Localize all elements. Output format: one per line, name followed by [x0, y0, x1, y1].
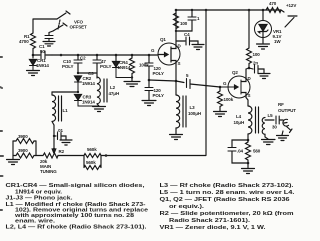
node spare rail junction [60, 54, 63, 57]
resistor 560 source [246, 140, 251, 163]
svg-text:R2: R2 [59, 149, 65, 154]
ground L2/CR3 [93, 107, 106, 112]
svg-text:Q1: Q1 [160, 37, 166, 42]
svg-text:OUTPUT: OUTPUT [278, 108, 296, 113]
node Q2 gate [219, 86, 222, 89]
wire L2 bottom [97, 104, 99, 106]
switch S1a VFO OFFSET [57, 11, 70, 19]
svg-text:C3: C3 [88, 71, 94, 76]
diode CR4 [115, 55, 117, 61]
capacitor offset trim [45, 36, 53, 39]
svg-text:L4: L4 [236, 114, 242, 119]
svg-text:R2 — Slide potentiometer, 20 k: R2 — Slide potentiometer, 20 kΩ (from [160, 211, 294, 217]
resistor 470 supply [266, 8, 281, 13]
diode CR3 [75, 95, 82, 101]
svg-text:100: 100 [180, 21, 188, 26]
wire top-left from R1 top to offset switch [33, 19, 57, 31]
svg-text:S: S [248, 93, 251, 98]
resistor R1 4700 [31, 31, 36, 51]
zener VR1 [255, 21, 272, 38]
node C3 [96, 54, 99, 57]
ground [214, 112, 227, 117]
capacitor C1 50 [33, 54, 52, 56]
scan edge smudges [0, 57, 3, 210]
ground [257, 44, 270, 49]
ground [192, 45, 204, 50]
svg-text:Q1, Q2 — JFET (Radio Shack RS: Q1, Q2 — JFET (Radio Shack RS 2036 [160, 197, 291, 203]
node C2 [77, 54, 80, 57]
ground [142, 101, 156, 106]
resistor 100 drain [174, 13, 179, 29]
svg-text:POLY: POLY [100, 64, 112, 69]
capacitor C3 47 POLY [96, 55, 98, 78]
svg-text:10μH: 10μH [234, 120, 245, 125]
svg-text:1N914: 1N914 [36, 63, 49, 68]
capacitor .04 bypass [232, 140, 248, 163]
wire L1 top to CR2 node [52, 91, 78, 93]
svg-text:RF: RF [278, 102, 284, 107]
node drain rail [175, 9, 178, 12]
svg-text:Radio Shack 271-1601).: Radio Shack 271-1601). [169, 218, 250, 224]
node divider tap [148, 79, 151, 82]
svg-text:560k: 560k [87, 147, 97, 152]
svg-text:+12V: +12V [286, 3, 296, 8]
svg-text:1N914: 1N914 [118, 65, 131, 70]
ground [27, 71, 40, 76]
svg-text:100: 100 [253, 52, 261, 57]
inductor L5 secondary [262, 118, 265, 135]
wire Q2 source to L4 [246, 98, 248, 107]
svg-text:100μH: 100μH [188, 111, 201, 116]
wire L5 top to output cap [265, 120, 274, 139]
resistor 100k gate [218, 87, 223, 111]
svg-text:L5 — 1 turn no. 28 enam. wire: L5 — 1 turn no. 28 enam. wire over L4. [160, 190, 295, 196]
ground [242, 163, 255, 174]
svg-text:CR1-CR4 — Small-signal silicon: CR1-CR4 — Small-signal silicon diodes, [6, 183, 145, 189]
ground bottom-left [7, 160, 20, 165]
svg-text:POLY: POLY [153, 93, 165, 98]
svg-text:1N914: 1N914 [82, 100, 95, 105]
svg-text:L2, L4 — Rf choke (Radio Shack: L2, L4 — Rf choke (Radio Shack 273-101). [6, 225, 147, 231]
wire top rail [176, 9, 281, 11]
svg-text:30: 30 [272, 125, 277, 130]
node cap1 top [191, 9, 193, 11]
svg-text:VR1 — Zener diode, 9.1 V, 1 W.: VR1 — Zener diode, 9.1 V, 1 W. [160, 225, 266, 231]
ground J3 [277, 131, 289, 141]
svg-text:560: 560 [253, 149, 261, 154]
resistor 100k tank [130, 55, 135, 81]
wire Q2 drain up [246, 68, 249, 77]
capacitor 2n [249, 68, 264, 73]
node C1 junction [32, 54, 35, 57]
ground [124, 82, 140, 87]
svg-text:C2: C2 [80, 56, 86, 61]
ground [258, 74, 270, 79]
capacitor 5 coupling [176, 81, 220, 87]
transistor Q2 [228, 76, 250, 98]
ground L5 [262, 140, 276, 145]
svg-text:S: S [178, 61, 181, 66]
svg-text:or equiv.).: or equiv.). [169, 204, 204, 210]
svg-text:L5: L5 [268, 113, 274, 118]
capacitor 1 [176, 10, 192, 31]
svg-text:3900: 3900 [18, 134, 28, 139]
potentiometer R2 [36, 153, 58, 158]
wiper R2 [53, 125, 55, 149]
svg-text:560k: 560k [86, 160, 96, 165]
jack J3 [283, 119, 292, 132]
transistor Q1 [158, 43, 180, 65]
capacitor .01 [54, 136, 66, 140]
svg-text:1N914: 1N914 [82, 81, 95, 86]
svg-text:C4: C4 [184, 32, 190, 37]
svg-text:2n: 2n [253, 61, 258, 66]
inductor L2 [97, 77, 100, 104]
svg-text:L2: L2 [110, 85, 116, 90]
svg-text:TUNING: TUNING [40, 169, 57, 174]
svg-text:L3: L3 [190, 105, 196, 110]
resistor 100 Q2 drain [247, 10, 252, 68]
svg-text:POLY: POLY [153, 71, 165, 76]
node [77, 72, 79, 74]
svg-text:POLY: POLY [62, 64, 74, 69]
svg-text:Q2: Q2 [232, 70, 238, 75]
svg-text:J1-J3 — Phono jack.: J1-J3 — Phono jack. [6, 196, 73, 202]
svg-text:3900: 3900 [18, 148, 28, 153]
svg-text:G: G [223, 81, 227, 86]
svg-text:4700: 4700 [19, 39, 29, 44]
svg-text:.04: .04 [237, 149, 244, 154]
diode CR2 [75, 76, 82, 82]
node 100k top [131, 54, 134, 57]
resistor 560k upper (in rail) [84, 154, 101, 158]
switch gang dashed link [58, 20, 60, 29]
wire bottom rail [58, 155, 206, 157]
inductor L4 [248, 106, 252, 134]
wire pair verticals [13, 141, 36, 159]
svg-text:50: 50 [40, 49, 45, 54]
wire [48, 39, 50, 42]
svg-text:L1: L1 [63, 108, 69, 113]
ground [43, 42, 55, 47]
wire divider tap to source [149, 80, 176, 81]
capacitor 120 POLY lower [148, 80, 150, 100]
ground [60, 140, 72, 145]
resistor 3900 lower [13, 153, 36, 158]
resistor 3900 upper [13, 139, 36, 144]
node divider top [148, 54, 151, 57]
svg-text:100k: 100k [224, 97, 234, 102]
svg-text:L3 — Rf choke (Radio Shack 273: L3 — Rf choke (Radio Shack 273-102). [160, 183, 294, 189]
capacitor C2 (C10 POLY) [77, 55, 79, 73]
svg-text:.01: .01 [57, 128, 64, 133]
capacitor 120 POLY upper [148, 55, 150, 80]
ground L3 [170, 135, 183, 140]
node L4 bottom [247, 139, 250, 142]
capacitor C4 [176, 41, 198, 44]
node CR2/CR3 [77, 91, 79, 93]
svg-text:1W: 1W [274, 39, 281, 44]
wire +12V feed vertical [205, 10, 207, 155]
inductor L3 [175, 81, 177, 95]
node CR4 [115, 54, 118, 57]
switch S1b [53, 23, 67, 31]
switch S1 power [281, 10, 297, 27]
inductor L1 [51, 92, 53, 95]
svg-text:470: 470 [269, 1, 277, 6]
wire link C2/C3 bottoms [78, 72, 97, 74]
svg-text:47μH: 47μH [109, 91, 120, 96]
diode CR1 [30, 60, 37, 66]
wire switch to cap [49, 31, 53, 35]
resistor 560k lower loop [84, 166, 101, 170]
svg-text:OFFSET: OFFSET [70, 25, 88, 30]
node Q1 source junction [175, 80, 178, 83]
parts list text [6, 183, 295, 231]
capacitor 30 output [276, 116, 279, 124]
wire Q1 drain up [175, 10, 177, 44]
svg-text:100k: 100k [139, 63, 149, 68]
wire main gate rail [52, 54, 158, 56]
svg-text:G: G [151, 48, 155, 53]
